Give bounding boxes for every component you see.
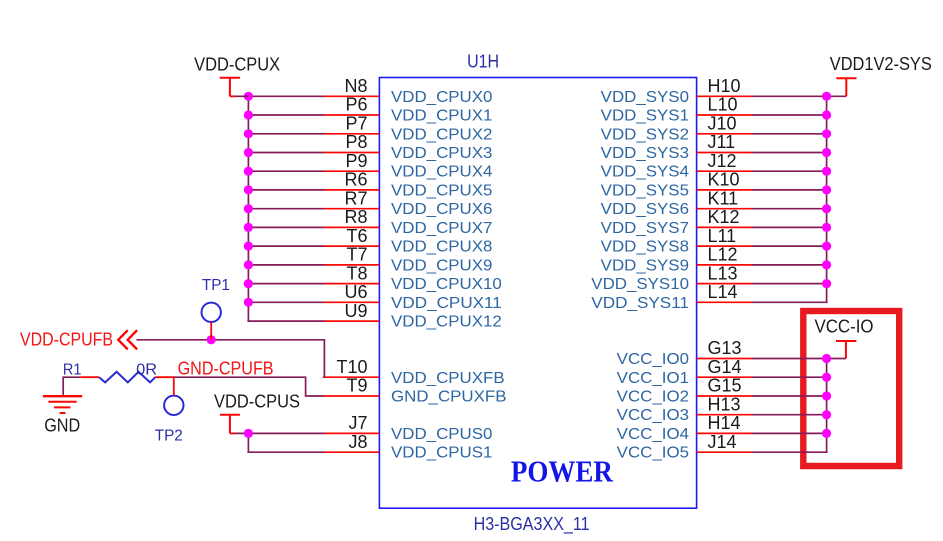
svg-text:H3-BGA3XX_11: H3-BGA3XX_11 bbox=[474, 514, 590, 535]
svg-text:VCC_IO1: VCC_IO1 bbox=[617, 370, 690, 387]
svg-text:VDD_SYS8: VDD_SYS8 bbox=[601, 239, 690, 256]
svg-text:VDD_CPUX11: VDD_CPUX11 bbox=[391, 295, 502, 312]
svg-text:TP1: TP1 bbox=[202, 277, 230, 294]
svg-text:R7: R7 bbox=[344, 188, 367, 208]
svg-text:VDD_CPUS0: VDD_CPUS0 bbox=[391, 426, 493, 443]
svg-text:VCC_IO4: VCC_IO4 bbox=[617, 426, 690, 443]
svg-text:L14: L14 bbox=[708, 282, 738, 302]
svg-text:VDD_SYS0: VDD_SYS0 bbox=[601, 89, 690, 106]
svg-text:T10: T10 bbox=[336, 357, 367, 377]
svg-text:G15: G15 bbox=[708, 376, 742, 396]
svg-text:R8: R8 bbox=[344, 207, 367, 227]
svg-text:VCC_IO0: VCC_IO0 bbox=[617, 351, 690, 368]
svg-text:VDD_SYS11: VDD_SYS11 bbox=[591, 295, 689, 312]
svg-text:P8: P8 bbox=[345, 132, 367, 152]
svg-text:K11: K11 bbox=[708, 188, 739, 208]
svg-text:J10: J10 bbox=[708, 114, 737, 134]
svg-text:T9: T9 bbox=[346, 376, 367, 396]
svg-text:TP2: TP2 bbox=[155, 428, 183, 445]
svg-text:VDD_CPUS1: VDD_CPUS1 bbox=[391, 445, 493, 462]
svg-text:VDD_CPUX0: VDD_CPUX0 bbox=[391, 89, 493, 106]
svg-text:J8: J8 bbox=[348, 432, 367, 452]
svg-text:U6: U6 bbox=[344, 282, 367, 302]
svg-text:VDD_SYS3: VDD_SYS3 bbox=[601, 145, 690, 162]
svg-text:GND_CPUXFB: GND_CPUXFB bbox=[391, 389, 507, 406]
svg-text:P7: P7 bbox=[345, 114, 367, 134]
svg-text:VDD_CPUX8: VDD_CPUX8 bbox=[391, 239, 493, 256]
svg-text:POWER: POWER bbox=[511, 454, 614, 489]
svg-text:VDD_CPUXFB: VDD_CPUXFB bbox=[391, 370, 505, 387]
svg-text:L13: L13 bbox=[708, 263, 738, 283]
svg-text:VDD_CPUX1: VDD_CPUX1 bbox=[391, 108, 493, 125]
svg-text:L11: L11 bbox=[708, 226, 737, 246]
svg-text:G14: G14 bbox=[708, 357, 742, 377]
svg-text:VDD_SYS5: VDD_SYS5 bbox=[601, 182, 690, 199]
svg-text:VCC_IO2: VCC_IO2 bbox=[617, 389, 689, 406]
svg-text:J14: J14 bbox=[708, 432, 737, 452]
svg-text:VCC_IO5: VCC_IO5 bbox=[617, 445, 690, 462]
svg-text:H13: H13 bbox=[708, 394, 741, 414]
svg-text:J12: J12 bbox=[708, 151, 737, 171]
svg-text:T8: T8 bbox=[346, 263, 367, 283]
svg-text:VDD_CPUX7: VDD_CPUX7 bbox=[391, 220, 492, 237]
svg-text:T6: T6 bbox=[346, 226, 367, 246]
svg-text:VDD-CPUX: VDD-CPUX bbox=[194, 54, 280, 75]
svg-text:VDD-CPUS: VDD-CPUS bbox=[214, 390, 300, 411]
svg-text:VCC-IO: VCC-IO bbox=[815, 316, 874, 337]
svg-text:U9: U9 bbox=[344, 301, 367, 321]
svg-text:GND: GND bbox=[44, 416, 80, 436]
svg-text:G13: G13 bbox=[708, 338, 742, 358]
svg-text:R1: R1 bbox=[63, 362, 82, 379]
svg-text:P9: P9 bbox=[345, 151, 367, 171]
svg-text:VDD_CPUX4: VDD_CPUX4 bbox=[391, 164, 493, 181]
svg-text:VDD_SYS2: VDD_SYS2 bbox=[601, 126, 689, 143]
svg-text:U1H: U1H bbox=[467, 52, 499, 72]
svg-text:K10: K10 bbox=[708, 170, 740, 190]
svg-text:P6: P6 bbox=[345, 95, 367, 115]
svg-text:VDD_SYS9: VDD_SYS9 bbox=[601, 257, 690, 274]
svg-text:0R: 0R bbox=[136, 362, 157, 379]
svg-text:J7: J7 bbox=[348, 413, 367, 433]
svg-text:L12: L12 bbox=[708, 245, 738, 265]
svg-text:VDD_CPUX6: VDD_CPUX6 bbox=[391, 201, 493, 218]
svg-text:VDD_SYS1: VDD_SYS1 bbox=[601, 108, 690, 125]
svg-text:VDD_SYS6: VDD_SYS6 bbox=[601, 201, 690, 218]
svg-text:GND-CPUFB: GND-CPUFB bbox=[178, 357, 274, 378]
svg-text:VDD-CPUFB: VDD-CPUFB bbox=[20, 328, 113, 349]
svg-text:VDD_CPUX12: VDD_CPUX12 bbox=[391, 314, 502, 331]
svg-text:VDD_CPUX5: VDD_CPUX5 bbox=[391, 182, 493, 199]
svg-text:VDD_CPUX9: VDD_CPUX9 bbox=[391, 257, 493, 274]
svg-text:J11: J11 bbox=[708, 132, 736, 152]
svg-text:VDD_CPUX10: VDD_CPUX10 bbox=[391, 276, 502, 293]
svg-text:H14: H14 bbox=[708, 413, 741, 433]
svg-text:VDD_CPUX2: VDD_CPUX2 bbox=[391, 126, 492, 143]
svg-text:N8: N8 bbox=[344, 76, 367, 96]
svg-text:H10: H10 bbox=[708, 76, 741, 96]
svg-text:T7: T7 bbox=[346, 245, 367, 265]
svg-text:R6: R6 bbox=[344, 170, 367, 190]
svg-text:L10: L10 bbox=[708, 95, 738, 115]
svg-text:VDD_CPUX3: VDD_CPUX3 bbox=[391, 145, 493, 162]
svg-text:VDD1V2-SYS: VDD1V2-SYS bbox=[830, 53, 932, 74]
svg-text:VDD_SYS10: VDD_SYS10 bbox=[591, 276, 689, 293]
svg-text:K12: K12 bbox=[708, 207, 740, 227]
svg-text:VCC_IO3: VCC_IO3 bbox=[617, 407, 690, 424]
svg-text:VDD_SYS4: VDD_SYS4 bbox=[601, 164, 690, 181]
svg-text:VDD_SYS7: VDD_SYS7 bbox=[601, 220, 689, 237]
